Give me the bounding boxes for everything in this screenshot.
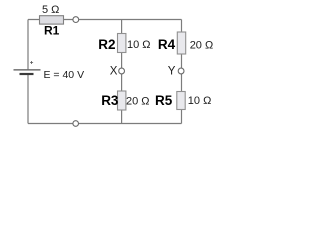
battery plus sign: [30, 61, 33, 64]
wire middle branch: [121, 20, 123, 124]
svg-text:X: X: [110, 66, 118, 78]
resistor R2 body: [118, 34, 126, 53]
wire left branch: [27, 20, 29, 124]
svg-text:10 Ω: 10 Ω: [127, 39, 151, 51]
svg-text:20 Ω: 20 Ω: [190, 40, 214, 52]
svg-text:R4: R4: [158, 37, 176, 52]
wire top bus: [28, 19, 182, 21]
node terminal on bottom wire: [73, 121, 79, 127]
svg-text:E = 40 V: E = 40 V: [44, 69, 85, 81]
wire bottom bus: [28, 123, 182, 125]
resistor R3 body: [118, 91, 126, 110]
battery E plates: [14, 70, 41, 74]
resistor R5 body: [177, 92, 185, 110]
node X terminal: [119, 68, 125, 74]
svg-text:Y: Y: [168, 66, 176, 78]
svg-text:20 Ω: 20 Ω: [126, 96, 150, 108]
resistor R4 body: [177, 32, 185, 54]
svg-text:10 Ω: 10 Ω: [188, 95, 212, 107]
resistor R1 body: [40, 16, 64, 24]
svg-text:R1: R1: [44, 24, 60, 38]
node Y terminal: [178, 68, 184, 74]
svg-text:R3: R3: [101, 93, 119, 108]
wire right branch: [181, 20, 183, 124]
svg-text:R5: R5: [155, 93, 173, 108]
svg-text:5 Ω: 5 Ω: [42, 4, 59, 16]
svg-text:R2: R2: [98, 37, 115, 52]
node terminal on top wire: [73, 17, 79, 23]
